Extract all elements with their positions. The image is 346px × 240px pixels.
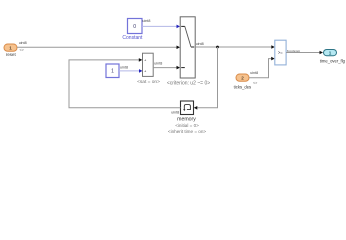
constant C1 (value 1): [106, 64, 119, 78]
svg-text:uint8: uint8: [196, 42, 204, 46]
svg-text:time_over_flg: time_over_flg: [320, 59, 346, 64]
inport ticks_des: [236, 74, 249, 81]
svg-text:<criterion: u2 ~= 0>: <criterion: u2 ~= 0>: [167, 81, 210, 87]
svg-text:<inherit time = on>: <inherit time = on>: [168, 129, 206, 134]
svg-text:<initial = 0>: <initial = 0>: [175, 123, 199, 128]
svg-text:memory: memory: [177, 117, 196, 123]
inport reset: [4, 44, 17, 51]
wire ticks_des to relational input 2: [249, 57, 275, 78]
svg-text:<sat = on>: <sat = on>: [137, 79, 160, 85]
wire const0 to switch input 1: [142, 25, 180, 29]
wire const1 to sum input 2: [119, 69, 143, 73]
wire reset to switch control: [17, 46, 180, 50]
svg-text:uint8: uint8: [120, 65, 128, 69]
svg-text:<>: <>: [253, 81, 257, 85]
wire memory output feedback loop to sum input 1: [69, 58, 181, 108]
junction node: [216, 46, 219, 49]
svg-text:1: 1: [9, 46, 12, 51]
svg-text:reset: reset: [6, 52, 17, 57]
svg-text:0: 0: [133, 24, 136, 30]
svg-text:uint8: uint8: [250, 71, 258, 75]
svg-text:uint8: uint8: [171, 111, 179, 115]
svg-text:uint8: uint8: [154, 62, 162, 66]
wire sum to switch input 3: [153, 66, 180, 70]
svg-text:1: 1: [111, 69, 114, 75]
svg-text:2: 2: [241, 76, 244, 81]
svg-text:Constant: Constant: [122, 35, 143, 41]
switch block: [180, 17, 195, 78]
svg-text:ticks_des: ticks_des: [234, 84, 251, 89]
svg-text:>=: >=: [278, 50, 283, 55]
sum block: [143, 53, 154, 76]
constant C0 (value 0): [128, 19, 143, 34]
outport time_over_flg: [324, 50, 337, 56]
wire relational to outport: [286, 51, 323, 55]
svg-text:uint8: uint8: [142, 19, 150, 23]
relational operator block: [275, 40, 286, 65]
svg-text:1: 1: [329, 51, 332, 56]
memory block: [181, 101, 194, 115]
wire branch down to memory input: [194, 47, 218, 110]
svg-text:uint8: uint8: [19, 41, 27, 45]
wire switch output to relational input 1: [195, 45, 275, 49]
svg-text:<>: <>: [20, 48, 24, 52]
